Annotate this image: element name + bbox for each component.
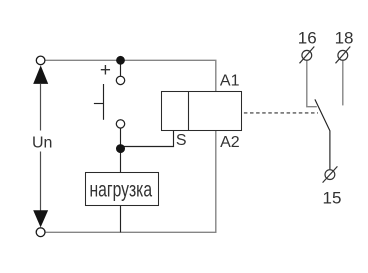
svg-text:Un: Un: [32, 134, 52, 151]
svg-text:+: +: [100, 60, 111, 81]
svg-text:A1: A1: [220, 73, 240, 90]
svg-text:18: 18: [335, 29, 354, 48]
svg-text:S: S: [176, 132, 187, 149]
svg-text:16: 16: [298, 29, 317, 48]
svg-text:нагрузка: нагрузка: [90, 178, 153, 201]
svg-text:15: 15: [323, 189, 342, 208]
svg-text:A2: A2: [220, 134, 240, 151]
